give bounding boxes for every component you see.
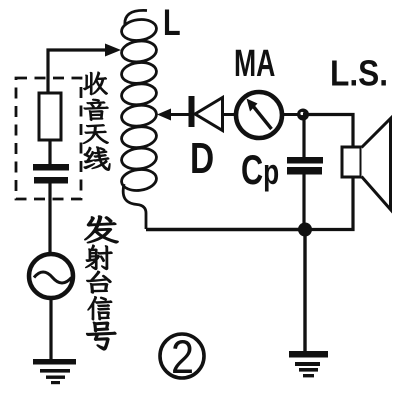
wire node to speaker top: [303, 115, 353, 149]
label 发射台信号 char 台 (transmitter signal): [87, 271, 112, 293]
capacitor (antenna capacitance): [33, 164, 69, 184]
loudspeaker L.S.: [342, 119, 391, 210]
wire node to ground (right): [303, 232, 306, 352]
svg-text:L: L: [163, 3, 181, 44]
label 发射台信号 char 号 (transmitter signal): [86, 322, 116, 350]
wire node to capacitor Cp: [302, 118, 305, 158]
label 收音天线 char 线 (receiving antenna): [84, 147, 110, 171]
node (junction dot, bottom): [298, 223, 312, 237]
wire source to ground: [49, 298, 52, 360]
wire resistor to capacitor: [48, 140, 51, 165]
wire diode to coil tap (arrow): [157, 109, 190, 121]
label Cp: [241, 146, 279, 193]
svg-text:Cp: Cp: [241, 146, 279, 193]
wire capacitor Cp to bottom rail: [302, 174, 305, 229]
meter MA (milliammeter): [236, 92, 282, 138]
label L.S.: [330, 54, 388, 94]
ground (right): [289, 351, 328, 377]
wire meter to node: [282, 113, 302, 116]
svg-text:L.S.: L.S.: [330, 54, 388, 94]
ground (left, transmitter): [33, 359, 76, 384]
label 发射台信号 char 信 (transmitter signal): [88, 296, 112, 320]
node (junction dot, top): [297, 109, 309, 121]
figure number 2 (circled): [160, 332, 204, 384]
svg-text:MA: MA: [234, 41, 275, 84]
svg-text:2: 2: [171, 332, 194, 384]
label 发射台信号 char 发 (transmitter signal): [85, 216, 119, 243]
wire diode to meter: [222, 113, 236, 116]
label 收音天线 char 天 (receiving antenna): [83, 124, 108, 143]
resistor (antenna radiation resistance): [39, 93, 61, 140]
label L: [163, 3, 181, 44]
dashed box (antenna equivalent circuit): [16, 78, 81, 199]
label MA: [234, 41, 275, 84]
label 发射台信号 char 射 (transmitter signal): [85, 245, 112, 270]
inductor coil L: [120, 10, 157, 229]
diode D: [189, 96, 223, 131]
label D: [190, 135, 214, 183]
AC source (transmitter signal): [29, 254, 73, 298]
label 收音天线 char 收 (receiving antenna): [83, 72, 107, 95]
svg-text:D: D: [190, 135, 214, 183]
wire capacitor to source: [50, 183, 51, 255]
label 收音天线 char 音 (receiving antenna): [84, 99, 108, 121]
wire coil bottom rail: [146, 228, 305, 231]
wire bottom rail to speaker bottom: [305, 175, 353, 230]
wire antenna-to-coil (with arrow into coil top): [48, 44, 121, 96]
capacitor Cp: [287, 157, 323, 175]
